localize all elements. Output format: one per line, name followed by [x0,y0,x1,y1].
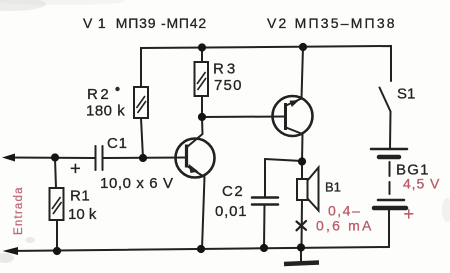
svg-text:0,01: 0,01 [215,203,247,220]
svg-text:+: + [404,204,415,224]
svg-text:10,0 x 6 V: 10,0 x 6 V [100,175,174,192]
svg-text:R3: R3 [213,61,238,78]
svg-text:R2: R2 [87,86,111,103]
svg-text:B1: B1 [325,180,341,195]
svg-text:+: + [70,158,81,179]
svg-text:V2 МП35–МП38: V2 МП35–МП38 [267,15,397,31]
svg-text:0,6 mA: 0,6 mA [316,218,374,234]
svg-text:4,5 V: 4,5 V [403,176,440,192]
svg-text:C1: C1 [107,135,128,152]
svg-text:V 1 МП39 -МП42: V 1 МП39 -МП42 [83,15,207,31]
svg-text:750: 750 [214,77,243,94]
svg-text:S1: S1 [397,86,415,103]
svg-text:C2: C2 [222,183,244,200]
svg-text:10 k: 10 k [68,206,97,223]
svg-text:R1: R1 [70,188,90,205]
svg-text:Entrada: Entrada [13,186,25,235]
svg-text:0,4–: 0,4– [328,203,361,219]
svg-text:180 k: 180 k [86,103,125,120]
